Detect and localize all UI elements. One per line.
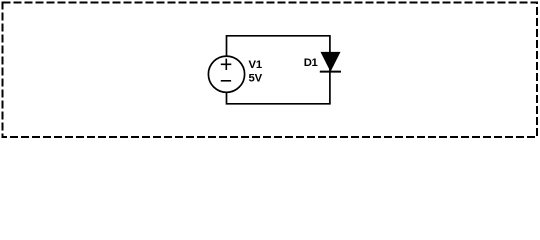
svg-text:D1: D1: [304, 57, 318, 69]
svg-text:V1: V1: [249, 59, 263, 71]
svg-text:5V: 5V: [249, 72, 263, 84]
